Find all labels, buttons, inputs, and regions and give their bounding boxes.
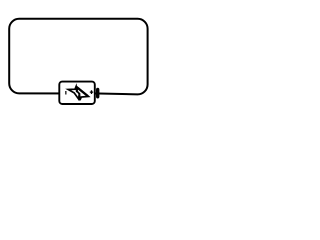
battery BT1 body [59, 82, 95, 104]
lightning bolt icon [68, 87, 88, 101]
battery BT1 terminal nub [97, 89, 99, 98]
battery plus mark [90, 90, 93, 94]
bolt center step stroke [76, 91, 79, 94]
battery minus mark [65, 91, 67, 95]
bolt main diagonal thick stroke [78, 88, 88, 96]
wire loop [9, 19, 147, 95]
